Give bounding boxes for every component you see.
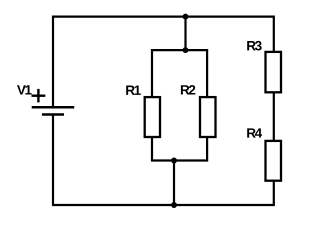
label R2 [181, 85, 195, 94]
resistor R4 [266, 141, 282, 181]
node: junction dot on bottom rail [171, 202, 177, 208]
wire: left branch lower + bottom rail + right branch lower [53, 114, 274, 206]
battery V1 [32, 107, 74, 114]
wire: parallel section top (R1 branch down, top bar, R2 branch down) [152, 50, 207, 97]
battery plate short (-) [42, 113, 64, 116]
resistor R1 [145, 97, 160, 137]
label V1 [17, 85, 32, 94]
node: junction dot at parallel-bottom [171, 158, 177, 164]
label R3 [247, 41, 261, 51]
label R1 [126, 86, 141, 95]
battery plus sign [32, 89, 46, 103]
wire: parallel section bottom (R1 branch down, bottom bar, R2 branch up) [152, 137, 207, 161]
wire: right branch middle (R3 to R4) [273, 92, 275, 141]
wire: left branch upper + top rail + right branch upper [53, 17, 274, 107]
resistor R2 [200, 97, 216, 137]
resistor R3 [266, 52, 282, 92]
wire: middle bottom stub [173, 161, 175, 206]
node: junction dot at parallel-top [183, 47, 189, 53]
wire: middle top stub [184, 17, 186, 51]
battery plate long (+) [32, 106, 74, 109]
node: junction dot on top rail [183, 14, 189, 20]
label R4 [247, 128, 262, 137]
